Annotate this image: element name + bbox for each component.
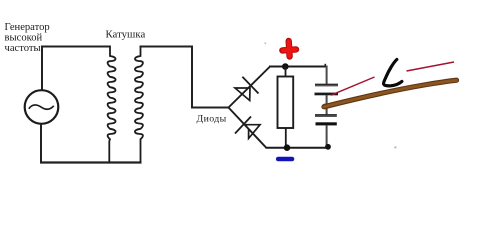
wire generator bottom to bottom rail <box>40 124 42 164</box>
diode VD2 triangle <box>243 125 260 139</box>
brown marker stroke <box>322 104 328 110</box>
black pen scribble L <box>384 60 402 86</box>
wire secondary top: coil to corner <box>140 47 229 108</box>
wire + top rail <box>269 66 327 68</box>
svg-text:частоты: частоты <box>5 43 41 54</box>
wire between C1 and C2 <box>326 95 328 115</box>
wire capacitor bottom lead <box>326 125 328 148</box>
faint speck right of bottom rail <box>395 147 397 149</box>
capacitor C2 bottom plate <box>316 122 337 125</box>
faint speck near plus <box>265 43 267 45</box>
wire top-left rail from generator to primary coil <box>41 46 111 48</box>
wire diode branch down-right to - rail <box>229 108 267 149</box>
capacitor C2 top plate <box>315 114 337 117</box>
svg-text:Генератор: Генератор <box>5 22 50 33</box>
wire resistor bottom lead <box>285 128 287 148</box>
AC generator G1 circle <box>25 90 59 124</box>
junction node bottom rail right corner <box>325 144 331 150</box>
plus terminal symbol <box>282 41 296 57</box>
svg-text:высокой: высокой <box>5 33 43 44</box>
minus terminal symbol <box>278 157 292 162</box>
capacitor C1 bottom plate <box>315 93 339 96</box>
sine wave inside generator <box>29 105 54 109</box>
diode VD2 cathode bar <box>235 117 251 134</box>
wire diode branch up-right to + rail <box>229 67 271 108</box>
label: Генератор высокой частоты <box>5 22 50 54</box>
wire - bottom rail <box>266 147 330 149</box>
junction node on + rail <box>282 63 289 70</box>
junction node on - rail <box>284 144 291 151</box>
wire left vertical to generator top <box>41 46 43 91</box>
capacitor C1 top plate <box>315 84 338 87</box>
wire capacitor top lead <box>326 66 328 85</box>
diode VD1 triangle <box>235 88 250 101</box>
wire resistor top lead <box>285 67 287 78</box>
wire primary bottom rail <box>40 161 142 163</box>
tick at top rail right end <box>324 64 326 67</box>
resistor R1 body <box>278 77 294 129</box>
red pen stroke segment B <box>407 62 455 71</box>
svg-text:Катушка: Катушка <box>106 29 146 41</box>
inductor L1 primary coil <box>108 46 116 164</box>
diode VD1 cathode bar <box>242 77 258 94</box>
svg-text:Диоды: Диоды <box>197 114 227 125</box>
inductor L2 secondary coil <box>135 46 143 164</box>
red pen stroke segment A <box>331 77 375 95</box>
